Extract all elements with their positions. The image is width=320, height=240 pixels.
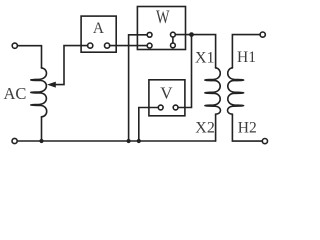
terminal W top-left (147, 32, 152, 37)
svg-text:W: W (156, 7, 170, 28)
terminal W top-right (171, 32, 176, 37)
terminal A right (105, 43, 110, 48)
terminal W bottom-left (147, 43, 152, 48)
svg-text:X1: X1 (195, 49, 215, 66)
wire bottom rail (17, 140, 215, 142)
terminal A left (88, 43, 93, 48)
transformer primary winding X1-X2 (205, 68, 221, 114)
wire X winding to rail (215, 114, 217, 141)
terminal W bottom-right (171, 43, 176, 48)
wire W to node J (175, 34, 191, 36)
autotransformer T1 winding (31, 68, 47, 117)
terminal input top-left (12, 43, 17, 48)
wire V left lead down to rail (139, 108, 159, 142)
terminal V left (158, 105, 163, 110)
wire A to W (110, 45, 147, 47)
terminal V right (173, 105, 178, 110)
wire W voltage lead down to rail (129, 35, 148, 141)
svg-text:H1: H1 (237, 49, 256, 66)
wire H winding to H2 terminal (232, 114, 262, 141)
wire coil bottom to rail (41, 117, 43, 141)
ammeter A box (81, 16, 116, 52)
terminal H1 (260, 32, 265, 37)
wire wiper to ammeter (55, 46, 87, 85)
terminal input bottom-left (12, 138, 17, 143)
wire node J down to voltmeter (178, 35, 191, 108)
svg-text:V: V (160, 83, 173, 102)
node rail junction 1 (127, 139, 131, 143)
transformer secondary winding H1-H2 (228, 68, 244, 114)
terminal H2 (262, 139, 267, 144)
wire H1 terminal to secondary (232, 35, 260, 68)
node J (189, 32, 194, 37)
wire input to autotransformer (17, 46, 41, 68)
svg-text:A: A (93, 20, 104, 37)
node coil-bottom junction (39, 139, 43, 143)
voltmeter V box (149, 80, 185, 116)
svg-text:H2: H2 (238, 119, 257, 136)
wiper arrow of autotransformer (47, 82, 56, 88)
wire node J to X1 winding (192, 35, 216, 68)
node rail junction 2 (137, 139, 141, 143)
wattmeter W box (137, 7, 185, 50)
wire W internal link (172, 37, 174, 43)
svg-text:X2: X2 (195, 119, 215, 136)
svg-text:AC: AC (4, 84, 27, 103)
